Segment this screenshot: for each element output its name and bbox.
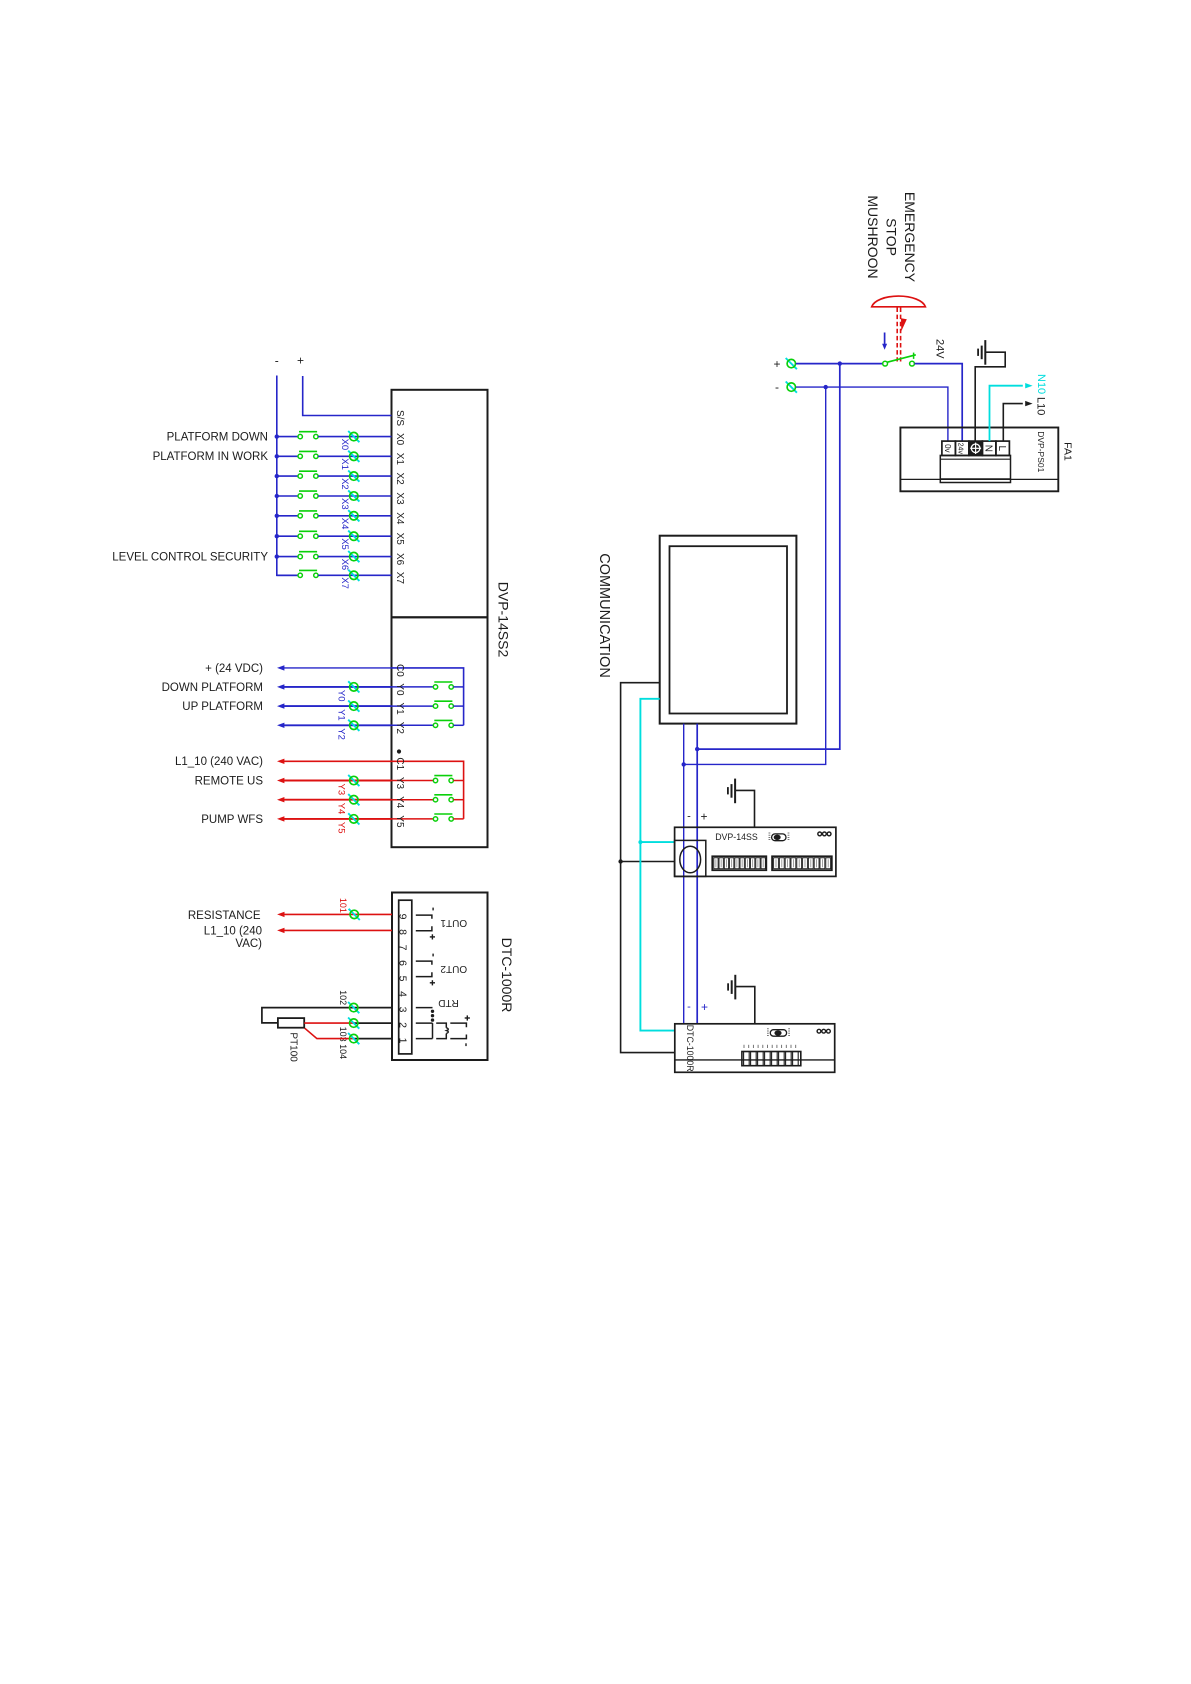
switch contact X1: [298, 451, 318, 458]
emergency stop switch: [883, 361, 888, 366]
module2 divider line: [675, 1059, 835, 1061]
wire 24V- feeder down: [684, 387, 826, 764]
wire row X1 left segment: [277, 455, 298, 457]
svg-text:+: +: [297, 354, 304, 368]
svg-text:L1_10 (240 VAC): L1_10 (240 VAC): [175, 756, 263, 768]
wire/arrow C0 +24VDC: [277, 665, 284, 670]
svg-text:PLATFORM IN WORK: PLATFORM IN WORK: [153, 451, 269, 463]
svg-text:4: 4: [397, 991, 409, 997]
svg-text:+: +: [700, 810, 707, 824]
svg-text:LEVEL CONTROL SECURITY: LEVEL CONTROL SECURITY: [112, 552, 268, 564]
svg-text:X0: X0: [339, 439, 350, 451]
PLC module DVP-14SS box: [675, 827, 836, 876]
svg-text:24V: 24V: [934, 339, 946, 359]
switch contact X4: [298, 511, 318, 518]
OUT1 output symbol: [416, 915, 432, 919]
svg-text:101: 101: [338, 898, 348, 913]
wire row X7 left segment: [277, 574, 298, 576]
relay contact Y2: [392, 724, 434, 726]
module1 run/stop switch: [772, 834, 786, 841]
svg-text:S/S: S/S: [394, 410, 405, 426]
relay contact Y3: [392, 780, 434, 782]
PLC DVP-14SS2 input section box: [392, 390, 488, 618]
svg-text:Y3: Y3: [394, 777, 405, 790]
svg-text:9: 9: [397, 914, 409, 920]
module1 terminal strip 1: [712, 856, 766, 870]
svg-text:DVP-PS01: DVP-PS01: [1036, 431, 1046, 472]
relay contact Y4: [392, 799, 434, 801]
svg-text:2: 2: [397, 1022, 409, 1028]
svg-text:X7: X7: [339, 577, 350, 589]
terminal L: [996, 441, 1010, 455]
svg-text:Y5: Y5: [336, 822, 347, 834]
module1 ellipse: [680, 846, 701, 873]
svg-text:FA1: FA1: [1061, 442, 1073, 461]
wire/arrow output Y0: [277, 684, 284, 689]
svg-text:X1: X1: [339, 458, 350, 470]
svg-text:PT100: PT100: [288, 1032, 299, 1062]
ground symbol module1: [734, 779, 736, 804]
HMI inner box: [670, 546, 788, 713]
mushroom stem dashed: [896, 308, 898, 362]
wire pin2 black to DTC: [354, 1022, 392, 1024]
wire C0 internal + vertical collector: [392, 668, 464, 725]
wire/arrow C1 L1_10: [277, 759, 284, 764]
relay contact Y0: [392, 686, 434, 688]
svg-text:Y5: Y5: [394, 815, 405, 828]
svg-text:DTC-1000R: DTC-1000R: [499, 938, 515, 1013]
svg-text:X4: X4: [339, 518, 350, 530]
wire marker Y2: [348, 720, 359, 731]
stem red wedge: [901, 318, 907, 331]
svg-text:0v: 0v: [943, 444, 952, 452]
junction dot rail row X2: [275, 474, 279, 478]
svg-text:7: 7: [397, 945, 409, 951]
svg-text:OUT1: OUT1: [440, 917, 467, 928]
svg-text:+: +: [773, 357, 780, 371]
svg-text:N10: N10: [1035, 374, 1047, 394]
svg-text:X6: X6: [394, 553, 405, 566]
switch contact X2: [298, 471, 318, 478]
wire row X3 left segment: [277, 495, 298, 497]
wire marker X2: [348, 471, 359, 482]
svg-text:COMMUNICATION: COMMUNICATION: [596, 553, 612, 678]
module2 terminal strip: [742, 1052, 801, 1066]
wire row X0 to PLC: [318, 436, 391, 438]
PLC DVP-14SS2 output section box: [392, 617, 488, 847]
wire marker Y5: [348, 813, 359, 824]
svg-text:L: L: [996, 446, 1007, 452]
wire marker X4: [348, 510, 359, 521]
svg-text:PLATFORM DOWN: PLATFORM DOWN: [167, 432, 268, 444]
svg-text:EMERGENCY: EMERGENCY: [902, 192, 918, 283]
wire pin3 loop to PT100: [262, 1008, 392, 1023]
svg-text:Y1: Y1: [394, 702, 405, 715]
switch contact X3: [298, 491, 318, 498]
svg-text:-: -: [687, 811, 691, 823]
switch contact X0: [298, 432, 318, 439]
wire communication black rail: [621, 683, 675, 1053]
svg-text:DTC-1000R: DTC-1000R: [685, 1025, 695, 1072]
wire marker 103: [348, 1018, 359, 1029]
wire marker 104: [348, 1033, 359, 1044]
terminal 24v: [955, 441, 969, 455]
svg-text:Y3: Y3: [336, 784, 347, 796]
wire L10 black: [1003, 404, 1023, 442]
junction dot rail row X0: [275, 434, 279, 438]
svg-text:1: 1: [397, 1038, 409, 1044]
svg-text:UP PLATFORM: UP PLATFORM: [182, 701, 263, 713]
terminal N: [982, 441, 996, 455]
svg-text:+ (24 VDC): + (24 VDC): [205, 663, 263, 675]
junction dot + feeder: [838, 361, 842, 365]
svg-text:C0: C0: [394, 664, 405, 677]
svg-text:5: 5: [397, 976, 409, 982]
terminal 0v: [942, 441, 956, 455]
wire/arrow output Y3: [277, 778, 284, 783]
svg-text:OUT2: OUT2: [440, 963, 467, 974]
wire row X4 to PLC: [318, 515, 391, 517]
FA1 box inner line: [900, 478, 1058, 480]
junction dot rail row X6: [275, 554, 279, 558]
svg-text:X5: X5: [394, 533, 405, 546]
temperature module DTC-1000R box: [675, 1024, 835, 1073]
wire row X7 to PLC: [318, 574, 391, 576]
svg-text:Y2: Y2: [336, 728, 347, 740]
emergency stop mushroom head: [872, 296, 926, 307]
wire row X5 left segment: [277, 535, 298, 537]
svg-text:X4: X4: [394, 512, 405, 525]
svg-text:C1: C1: [394, 757, 405, 770]
switch contact X5: [298, 531, 318, 538]
wire ground to module1: [735, 790, 754, 827]
wire row X3 to PLC: [318, 495, 391, 497]
wire row X6 left segment: [277, 556, 298, 558]
svg-text:X2: X2: [394, 472, 405, 485]
wire row X6 to PLC: [318, 556, 391, 558]
svg-text:L1_10 (240: L1_10 (240: [204, 925, 262, 937]
svg-text:DOWN PLATFORM: DOWN PLATFORM: [162, 682, 263, 694]
wire/arrow output Y2: [277, 723, 284, 728]
wire row X4 left segment: [277, 515, 298, 517]
RTD input symbol: [416, 1007, 433, 1009]
svg-text:STOP: STOP: [884, 218, 900, 256]
wire marker X3: [348, 490, 359, 501]
wire marker 102: [348, 1002, 359, 1013]
wire switch to 24v terminal: [915, 364, 963, 442]
wire marker X7: [348, 570, 359, 581]
svg-text:Y4: Y4: [394, 796, 405, 809]
wire earth terminal to ground: [975, 352, 1005, 441]
svg-text:RTD: RTD: [438, 997, 458, 1008]
ground symbol PSU: [984, 340, 986, 365]
svg-text:24v: 24v: [956, 443, 963, 455]
resistor PT100: [278, 1018, 304, 1028]
junction dot rail row X5: [275, 534, 279, 538]
svg-text:Y0: Y0: [336, 690, 347, 702]
wire + rail to S/S: [303, 376, 392, 416]
wire marker Y3: [348, 775, 359, 786]
wire row X1 to PLC: [318, 455, 391, 457]
blue actuation arrow: [884, 333, 886, 346]
HMI outer box: [660, 536, 797, 724]
svg-text:MUSHROON: MUSHROON: [865, 195, 881, 278]
svg-text:REMOTE US: REMOTE US: [195, 775, 264, 787]
module1 left sub-box: [675, 840, 706, 876]
junction dot cyan rail: [638, 840, 642, 844]
svg-text:Y1: Y1: [336, 709, 347, 721]
wire marker Y0: [348, 681, 359, 692]
wire marker Y4: [348, 794, 359, 805]
svg-text:X5: X5: [339, 538, 350, 550]
svg-text:X7: X7: [394, 572, 405, 585]
module1 terminal strip 2: [772, 856, 832, 870]
wire marker 101: [349, 909, 360, 920]
wire C1 internal + vertical collector: [392, 761, 464, 819]
svg-text:RESISTANCE: RESISTANCE: [188, 910, 261, 922]
svg-text:8: 8: [397, 929, 409, 935]
svg-text:DVP-14SS: DVP-14SS: [715, 832, 758, 842]
wire row X2 left segment: [277, 475, 298, 477]
wire marker X6: [348, 551, 359, 562]
module2 tiny pin numbers: [743, 1045, 745, 1048]
svg-text:6: 6: [397, 960, 409, 966]
svg-text:X3: X3: [339, 498, 350, 510]
wire communication cyan rail: [640, 699, 674, 1031]
wire row X0 left segment: [277, 436, 298, 438]
junction dot plus rail: [695, 747, 699, 751]
svg-text:X3: X3: [394, 492, 405, 505]
svg-text:Y0: Y0: [394, 683, 405, 696]
power supply FA1 box: [900, 428, 1058, 492]
svg-text:+: +: [701, 1000, 708, 1014]
svg-text:L10: L10: [1035, 397, 1047, 415]
wire HMI minus rail: [683, 724, 685, 1024]
wire/arrow output Y5: [277, 816, 284, 821]
wire ground to module2: [735, 987, 755, 1024]
DTC terminal strip: [399, 900, 412, 1054]
svg-text:N: N: [982, 445, 993, 452]
wire HMI plus rail: [696, 724, 698, 1024]
wire/arrow pin8 L1_10: [277, 928, 284, 933]
relay contact Y1: [392, 705, 434, 707]
wire marker Y1: [348, 701, 359, 712]
wire pin2 red from PT100: [304, 1022, 354, 1024]
svg-text:DVP-14SS2: DVP-14SS2: [496, 582, 512, 658]
wire row X2 to PLC: [318, 475, 391, 477]
svg-text:-: -: [775, 380, 779, 394]
switch contact X7: [298, 570, 318, 577]
junction dot rail row X1: [275, 454, 279, 458]
wire marker X0: [348, 431, 359, 442]
wire N10 cyan: [990, 386, 1023, 441]
wire pin1 red diagonal from PT100: [305, 1028, 354, 1038]
terminal dot unused: [397, 749, 401, 753]
terminal earth (filled): [969, 441, 983, 455]
relay contact Y5: [392, 818, 434, 820]
wire pin1 black to DTC: [354, 1038, 392, 1040]
svg-text:-: -: [687, 1001, 691, 1013]
ground symbol module2: [734, 975, 736, 1000]
DTC-1000R controller box: [392, 893, 488, 1061]
junction dot rail row X4: [275, 514, 279, 518]
wire/arrow output Y4: [277, 797, 284, 802]
wire marker X1: [348, 451, 359, 462]
svg-text:3: 3: [397, 1007, 409, 1013]
wire - rail vertical: [277, 376, 298, 576]
wire/arrow pin9 RESISTANCE: [277, 912, 284, 917]
OUT2 output symbol: [416, 961, 432, 965]
svg-text:X6: X6: [339, 559, 350, 571]
junction dot black rail: [618, 859, 622, 863]
svg-text:104: 104: [338, 1044, 348, 1059]
wire black branch to DVP-14SS: [621, 861, 675, 863]
wire 24V+ feeder down: [697, 364, 840, 749]
module1 LEDs: [818, 832, 822, 836]
svg-text:Y2: Y2: [394, 722, 405, 735]
switch contact X6: [298, 552, 318, 559]
junction dot - feeder: [824, 385, 828, 389]
svg-text:X0: X0: [394, 433, 405, 446]
svg-text:PUMP WFS: PUMP WFS: [201, 814, 263, 826]
wire cyan branch to DVP-14SS: [640, 841, 674, 843]
svg-text:VAC): VAC): [235, 938, 262, 950]
svg-text:102: 102: [338, 990, 348, 1005]
svg-text:Y4: Y4: [336, 803, 347, 815]
svg-text:X2: X2: [339, 478, 350, 490]
PSU terminal cover block: [940, 455, 1010, 482]
wire +24V from terminal to switch: [796, 363, 883, 365]
module2 run/stop switch: [770, 1030, 786, 1037]
junction dot rail row X3: [275, 494, 279, 498]
wire - to 0v terminal: [796, 387, 948, 441]
svg-text:-: -: [275, 354, 279, 368]
wire/arrow output Y1: [277, 703, 284, 708]
junction dot minus rail: [682, 762, 686, 766]
module2 LEDs: [817, 1029, 821, 1033]
wire row X5 to PLC: [318, 535, 391, 537]
svg-text:X1: X1: [394, 453, 405, 466]
wire marker X5: [348, 531, 359, 542]
